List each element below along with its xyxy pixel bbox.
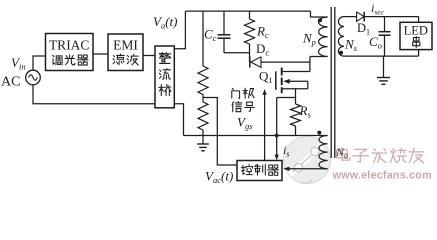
block: bridge rectifier box — [155, 46, 174, 108]
svg-text:www.elecfans.com: www.elecfans.com — [332, 170, 432, 182]
wire: V_ac sense tap to controller — [203, 98, 237, 166]
arrow: gate drive V_gs (up) — [264, 94, 266, 161]
wire: TRIAC to EMI — [93, 53, 108, 55]
diode D_1 (pointing right) — [357, 12, 364, 22]
transformer aux winding N_a — [319, 136, 328, 169]
transformer secondary N_s — [338, 17, 344, 57]
wire: bridge bottom output — [174, 104, 183, 136]
capacitor C_o — [384, 17, 386, 32]
capacitor C_c — [223, 11, 225, 35]
svg-text:EMI: EMI — [113, 38, 138, 53]
dot secondary polarity — [339, 51, 343, 55]
resistor R_c — [249, 11, 251, 19]
svg-text:Va(t): Va(t) — [153, 14, 178, 31]
block: LED string box — [418, 17, 420, 23]
wire: top bus V_a rail — [185, 10, 310, 12]
wire: AC top to TRIAC — [33, 56, 46, 70]
wire: secondary top rail — [344, 16, 357, 18]
resistor (divider upper) — [202, 11, 204, 66]
label 信号 — [232, 101, 242, 111]
transistor Q1 MOSFET — [275, 71, 277, 90]
wire: source to R_s — [295, 89, 297, 104]
resistor R_s — [291, 104, 301, 126]
svg-text:TRIAC: TRIAC — [49, 38, 90, 53]
svg-text:AC: AC — [1, 75, 20, 90]
dot primary polarity — [318, 18, 322, 22]
wire: EMI to bridge — [143, 55, 155, 57]
diode D_c (clamp, pointing left) — [249, 53, 251, 62]
wire: clamp bottom node — [224, 52, 250, 54]
arrow i_s into controller — [275, 155, 279, 161]
svg-text:LED: LED — [404, 24, 428, 38]
wire: aux winding to controller with arrow — [289, 168, 328, 170]
wire: bus step down to primary top — [311, 11, 328, 17]
label gate-signal 门极 — [232, 88, 240, 98]
dot aux polarity — [317, 131, 321, 135]
transformer core — [330, 7, 332, 158]
wire: i_s sense tap — [277, 97, 296, 99]
wire: AC bottom to bridge — [33, 85, 155, 104]
wire: bottom ground rail — [184, 135, 328, 137]
wire: secondary bottom rail — [344, 55, 419, 57]
AC source V_in — [26, 70, 41, 85]
block: TRIAC dimmer box — [46, 34, 94, 71]
wire: bridge top output — [174, 11, 185, 49]
resistor (divider lower) — [198, 102, 208, 130]
junction dot on ground rail — [275, 134, 279, 138]
ground (primary side) — [202, 136, 204, 145]
watermark logo circle (under circuit) — [284, 137, 331, 184]
block: EMI filter box — [108, 34, 143, 71]
wire: clamp/drain line — [261, 61, 310, 63]
ground (secondary side) — [383, 56, 385, 77]
block: controller box — [237, 161, 282, 181]
watermark text 电子发烧友 — [337, 148, 350, 160]
transformer primary N_p — [319, 17, 328, 57]
